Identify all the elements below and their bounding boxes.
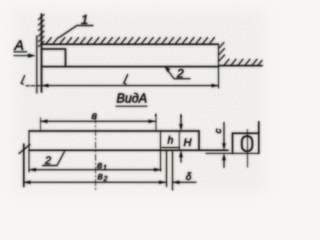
- main line art pass: [14, 12, 263, 192]
- scan fuzz pass: [14, 12, 263, 192]
- stray specks: [155, 115, 182, 118]
- scan grain over drawing area: [2, 0, 280, 204]
